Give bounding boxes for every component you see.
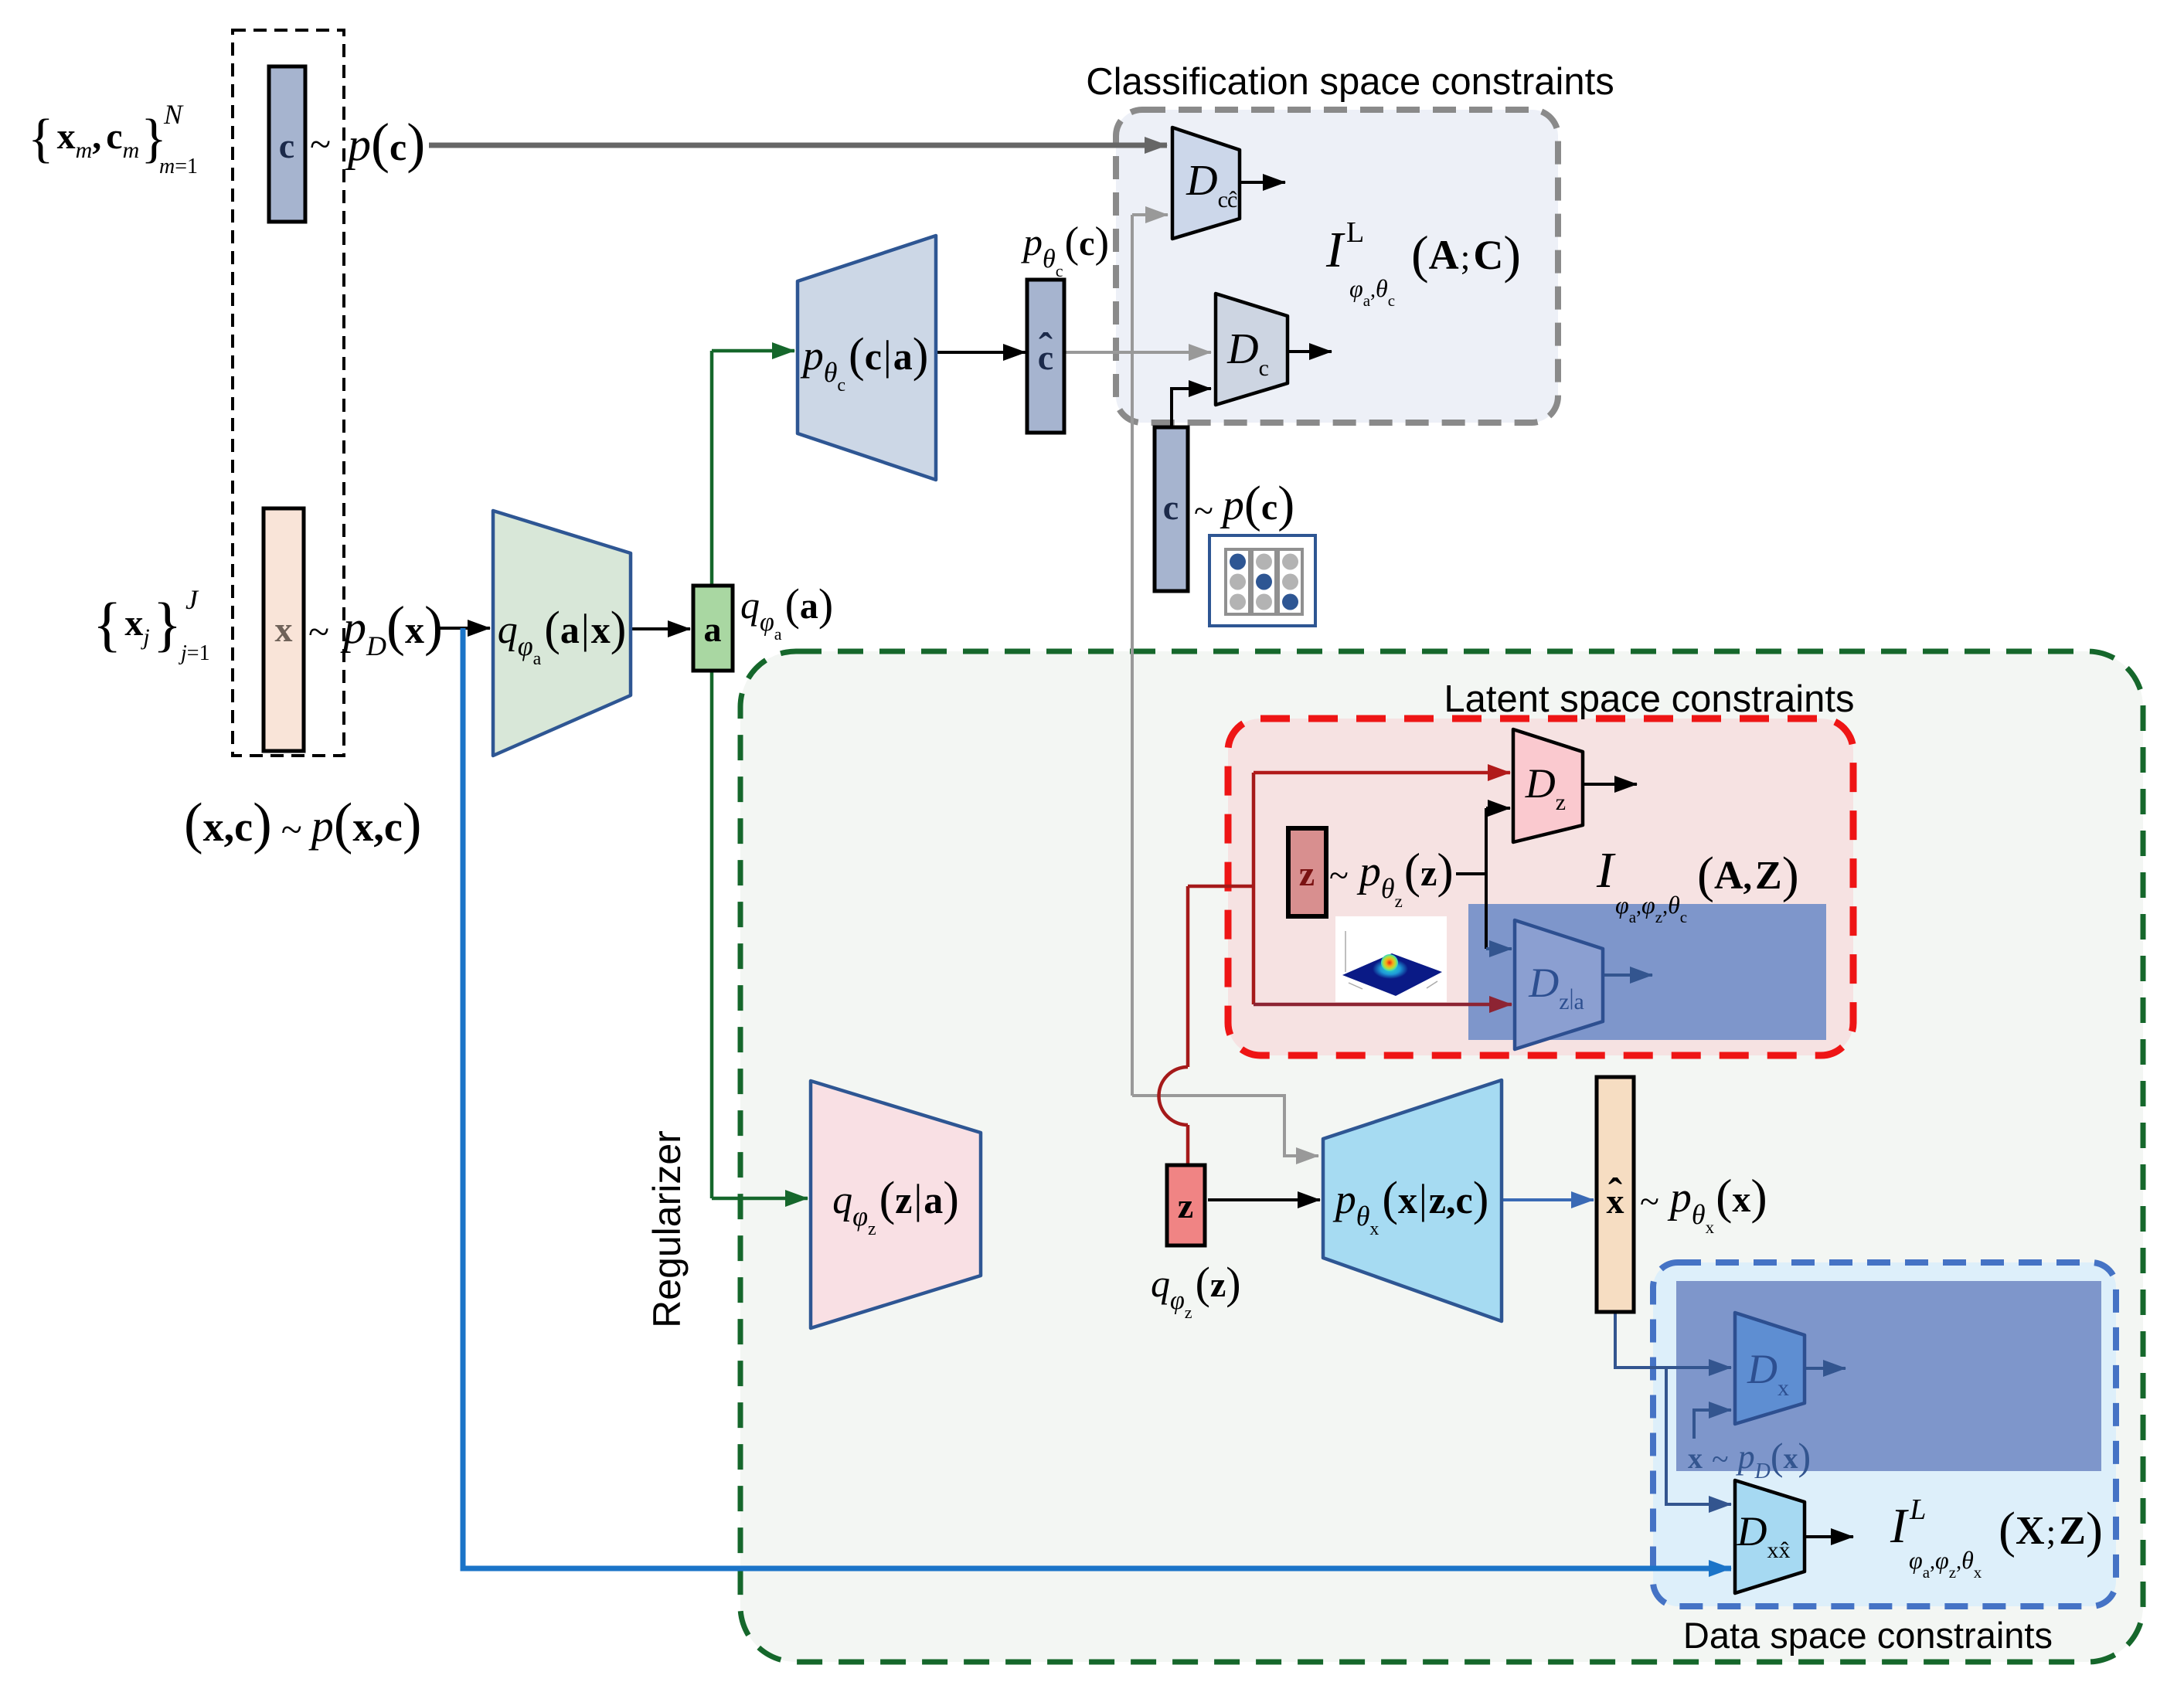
wire decoder to x_hat (blue)	[1502, 1198, 1594, 1201]
svg-text:c: c	[1163, 488, 1179, 527]
D_z output arrow	[1583, 783, 1637, 786]
svg-text:(: (	[1244, 476, 1261, 532]
svg-text:z: z	[1429, 1178, 1446, 1222]
svg-text:φ: φ	[1170, 1286, 1185, 1315]
svg-text:c: c	[106, 116, 122, 157]
left dashed box around c and x	[233, 30, 344, 756]
vector c2 sample	[1155, 427, 1188, 591]
wire c to D_cc (thick gray)	[429, 143, 1167, 148]
svg-text:x: x	[124, 603, 143, 644]
svg-text:(: (	[849, 329, 865, 382]
svg-text:~: ~	[1712, 1442, 1729, 1476]
svg-text:,: ,	[1370, 278, 1376, 302]
svg-text:c: c	[1056, 261, 1063, 280]
gray vertical bus from c_hat junction	[1131, 215, 1134, 1096]
svg-text:p: p	[1332, 1176, 1356, 1222]
svg-text:x: x	[1369, 1219, 1379, 1239]
svg-text:D: D	[1186, 157, 1217, 205]
svg-text:φ: φ	[1935, 1546, 1949, 1574]
svg-text:c: c	[1218, 187, 1228, 212]
svg-text:,: ,	[224, 804, 235, 850]
svg-text:~: ~	[1329, 855, 1349, 895]
decoder p_theta_x trapezoid	[1323, 1080, 1502, 1321]
svg-text:c: c	[384, 804, 403, 850]
svg-text:(: (	[1404, 843, 1420, 898]
dark red bus vertical in latent box	[1252, 773, 1256, 1004]
svg-text:(: (	[386, 595, 405, 657]
svg-text:(: (	[1697, 847, 1714, 903]
wire c2 to D_c second input	[1172, 389, 1211, 429]
svg-text:): )	[403, 792, 422, 855]
discriminator D_z trapezoid	[1513, 729, 1583, 842]
vector z	[1167, 1165, 1205, 1245]
svg-text:p: p	[1736, 1438, 1755, 1476]
svg-text:x: x	[352, 804, 373, 850]
svg-text:): )	[1750, 1169, 1767, 1224]
svg-text:m: m	[76, 138, 93, 163]
svg-text:,: ,	[92, 116, 101, 157]
svg-text:X: X	[2016, 1509, 2045, 1553]
D_cc output arrow	[1240, 181, 1285, 184]
svg-text:x: x	[1777, 1375, 1789, 1401]
green wire a vertical bus	[710, 351, 714, 1198]
svg-text:~: ~	[308, 610, 329, 653]
discriminator D_cc trapezoid	[1172, 127, 1240, 239]
svg-text:A: A	[1714, 854, 1743, 898]
svg-text:z: z	[868, 1219, 876, 1239]
svg-text:θ: θ	[1961, 1546, 1974, 1574]
svg-text:,: ,	[373, 804, 384, 850]
svg-text:,: ,	[1743, 857, 1753, 896]
wire z to decoder p_theta_x	[1208, 1198, 1320, 1201]
svg-text:D: D	[1747, 1346, 1777, 1392]
svg-text:x: x	[1784, 1442, 1798, 1475]
blue overlay rect in latent box	[1468, 904, 1826, 1040]
svg-text:(: (	[1771, 1435, 1784, 1478]
svg-text:x: x	[1688, 1442, 1703, 1475]
svg-text:): )	[1473, 1173, 1489, 1225]
svg-text:a: a	[893, 335, 913, 378]
svg-text:(: (	[1999, 1502, 2016, 1558]
svg-text:c: c	[234, 804, 253, 850]
svg-text:(: (	[1411, 225, 1429, 284]
vector z sample (latent box)	[1288, 828, 1326, 916]
svg-text:p: p	[1220, 481, 1244, 529]
svg-text:): )	[611, 603, 627, 655]
svg-text:I: I	[1325, 222, 1345, 278]
svg-text:x: x	[1732, 1179, 1750, 1220]
svg-text:z: z	[1299, 854, 1315, 893]
dark red wire to D_za second input	[1254, 1003, 1512, 1007]
vector c (left box)	[269, 66, 305, 222]
svg-text:p: p	[340, 602, 366, 653]
decoder p_theta_c trapezoid	[798, 236, 936, 480]
svg-text:a: a	[774, 624, 782, 644]
D_x output arrow	[1805, 1367, 1846, 1370]
black wire from p_theta_z label	[1456, 872, 1486, 875]
svg-text:=1: =1	[187, 641, 210, 665]
svg-text:L: L	[1346, 216, 1364, 249]
wire x to encoder q_phi_a	[438, 627, 490, 630]
svg-text:): )	[2086, 1502, 2103, 1558]
svg-text:): )	[1798, 1435, 1811, 1478]
svg-text:x: x	[275, 610, 293, 649]
svg-text:q: q	[498, 608, 518, 652]
svg-text:p: p	[800, 332, 824, 379]
svg-text:): )	[253, 792, 272, 855]
svg-text:x: x	[57, 116, 76, 157]
svg-text:,: ,	[1446, 1178, 1456, 1222]
svg-text:(: (	[785, 579, 800, 630]
green dashed regularizer region box	[740, 651, 2143, 1662]
svg-text:c: c	[1388, 291, 1395, 310]
navy wire to D_za first input	[1486, 947, 1512, 950]
svg-text:φ: φ	[1909, 1546, 1923, 1574]
svg-text:c: c	[1261, 487, 1277, 528]
svg-text:|: |	[914, 1176, 923, 1222]
dark red stub from bus to z wire	[1188, 885, 1254, 889]
svg-text:m: m	[123, 138, 140, 163]
svg-text:Regularizer: Regularizer	[645, 1130, 689, 1328]
svg-text:x: x	[591, 608, 611, 651]
discriminator D_xx trapezoid	[1735, 1480, 1805, 1593]
gaussian surface image	[1335, 916, 1447, 1002]
svg-text:p: p	[1356, 848, 1381, 895]
svg-text:): )	[1782, 847, 1799, 903]
svg-text:p: p	[308, 800, 334, 851]
svg-text:|: |	[1419, 1176, 1427, 1222]
discriminator D_za trapezoid	[1515, 920, 1603, 1049]
svg-text:(: (	[334, 792, 353, 855]
svg-text:x: x	[1974, 1563, 1982, 1582]
svg-text:|: |	[581, 606, 590, 652]
svg-text:φ: φ	[760, 608, 774, 637]
svg-text:q: q	[832, 1178, 852, 1222]
svg-text:θ: θ	[1356, 1201, 1370, 1232]
svg-text:z: z	[895, 1178, 912, 1222]
svg-text:φ: φ	[1615, 891, 1629, 919]
wire p_theta_c to c_hat	[936, 351, 1026, 354]
svg-text:Z: Z	[1755, 854, 1782, 898]
dark red hop over gray wire	[1159, 1067, 1189, 1125]
svg-text:Z: Z	[2059, 1509, 2086, 1553]
vector c_hat	[1027, 280, 1064, 433]
svg-text:(: (	[184, 792, 203, 855]
svg-text:p: p	[1667, 1174, 1692, 1222]
svg-text:ˆ: ˆ	[1608, 1170, 1622, 1216]
svg-text:z: z	[1556, 790, 1566, 815]
svg-text:q: q	[740, 583, 760, 627]
svg-text:z: z	[1559, 989, 1569, 1014]
svg-text:p: p	[1021, 220, 1043, 263]
vector x (left box)	[264, 508, 304, 751]
svg-text:~: ~	[1640, 1181, 1659, 1221]
blue overlay rect in data box	[1676, 1281, 2101, 1471]
svg-text:,: ,	[1662, 895, 1668, 919]
svg-text:x: x	[1767, 1538, 1779, 1563]
green wire a to q_phi_z	[712, 1197, 808, 1201]
svg-text:~: ~	[281, 807, 302, 851]
svg-text:x: x	[1706, 1218, 1715, 1237]
svg-text:,: ,	[1956, 1550, 1961, 1574]
dark red wire down to z (lower)	[1186, 1125, 1190, 1164]
svg-text:(: (	[544, 603, 560, 655]
svg-text:(: (	[879, 1173, 896, 1225]
dark red wire to D_z input	[1254, 771, 1510, 775]
svg-text:D: D	[1754, 1459, 1771, 1483]
svg-text:c: c	[1680, 908, 1687, 926]
svg-text:a: a	[1574, 989, 1584, 1014]
svg-text:p: p	[345, 119, 371, 170]
wire x pD to D_x second input	[1694, 1410, 1731, 1439]
svg-text:): )	[818, 579, 833, 630]
svg-text:,: ,	[1930, 1550, 1935, 1574]
svg-text:θ: θ	[1668, 891, 1680, 919]
svg-text:z: z	[1420, 853, 1437, 894]
svg-text:c: c	[837, 375, 845, 396]
D_c output arrow	[1288, 350, 1332, 353]
svg-text:Classification space constrain: Classification space constraints	[1086, 61, 1614, 103]
svg-text:Data space constraints: Data space constraints	[1683, 1615, 2053, 1656]
svg-text:~: ~	[310, 122, 331, 165]
svg-text:(: (	[1196, 1258, 1210, 1308]
wire encoder q_phi_a to a	[631, 627, 690, 630]
svg-text:): )	[1437, 843, 1453, 898]
svg-text:): )	[407, 112, 425, 174]
svg-text:;: ;	[1461, 237, 1471, 277]
black wire to D_z second input	[1486, 807, 1510, 810]
svg-text:a: a	[924, 1178, 943, 1222]
svg-text:θ: θ	[1381, 873, 1395, 904]
svg-text:ĉ: ĉ	[1227, 187, 1237, 212]
gray wire to D_cc second input	[1132, 213, 1168, 216]
svg-text:): )	[424, 595, 443, 657]
svg-text:{: {	[28, 109, 54, 168]
D_za output arrow	[1603, 974, 1652, 977]
svg-text:a: a	[704, 610, 722, 649]
svg-text:(: (	[1065, 219, 1080, 267]
classification space constraints dashed box	[1116, 110, 1558, 423]
svg-text:~: ~	[1194, 491, 1213, 530]
data space constraints blue dashed box	[1653, 1262, 2116, 1606]
svg-text:θ: θ	[1376, 274, 1388, 302]
svg-text:,: ,	[1636, 895, 1641, 919]
svg-text:φ: φ	[1641, 891, 1655, 919]
black bus for D_z / D_za	[1485, 808, 1488, 949]
svg-text:z: z	[1395, 892, 1403, 911]
D_xx output arrow	[1805, 1535, 1853, 1538]
discriminator D_c trapezoid	[1216, 294, 1288, 405]
svg-text:x: x	[203, 804, 224, 850]
svg-text:z: z	[1949, 1563, 1956, 1582]
svg-text:φ: φ	[852, 1201, 868, 1232]
svg-text:I: I	[1596, 842, 1616, 899]
gray wire c_hat to D_c	[1064, 351, 1211, 354]
green wire a to p_theta_c	[712, 349, 794, 353]
svg-text:a: a	[533, 649, 542, 669]
svg-text:D: D	[1737, 1508, 1767, 1555]
svg-text:c: c	[390, 125, 407, 168]
svg-text:}: }	[153, 590, 182, 658]
wire x_hat down to D_x	[1615, 1313, 1731, 1368]
svg-text:D: D	[1525, 760, 1556, 807]
svg-text:A: A	[1429, 232, 1459, 278]
blue wire x to D_xx (long)	[463, 628, 1731, 1568]
wire branch to D_xx first input	[1666, 1368, 1731, 1504]
gray wire to decoder p_theta_x	[1132, 1096, 1318, 1156]
svg-text:C: C	[1473, 232, 1503, 278]
svg-text:ˆ: ˆ	[1039, 325, 1053, 371]
vector a	[693, 586, 733, 671]
svg-text:z: z	[1210, 1265, 1226, 1304]
svg-text:x: x	[1398, 1178, 1417, 1222]
svg-text:D: D	[1226, 325, 1258, 373]
svg-text:x̂: x̂	[1779, 1538, 1791, 1563]
one-hot class image (dot matrix)	[1209, 535, 1315, 626]
svg-text:m: m	[159, 155, 175, 178]
svg-text:q: q	[1151, 1262, 1170, 1305]
svg-text:): )	[1503, 225, 1521, 284]
svg-text:;: ;	[2046, 1512, 2056, 1551]
svg-text:Latent space constraints: Latent space constraints	[1444, 678, 1854, 720]
svg-text:N: N	[163, 99, 184, 130]
svg-text:z: z	[1185, 1303, 1192, 1322]
latent space constraints red dashed box	[1228, 719, 1853, 1055]
discriminator D_x trapezoid	[1735, 1313, 1805, 1424]
svg-text:θ: θ	[1692, 1199, 1706, 1230]
svg-text:c: c	[1259, 355, 1269, 381]
svg-text:c: c	[1456, 1178, 1473, 1222]
svg-text:): )	[1277, 476, 1294, 532]
encoder q_phi_z trapezoid	[811, 1081, 981, 1328]
svg-text:a: a	[560, 608, 580, 651]
dark red wire down to z (upper)	[1186, 886, 1190, 1067]
svg-text:I: I	[1890, 1498, 1909, 1553]
svg-text:(: (	[1382, 1173, 1398, 1225]
svg-text:|: |	[883, 332, 892, 379]
svg-text:D: D	[366, 630, 386, 661]
svg-text:(: (	[1716, 1169, 1732, 1224]
vector x_hat	[1597, 1077, 1634, 1312]
svg-text:D: D	[1528, 960, 1559, 1006]
svg-text:x: x	[405, 608, 424, 651]
encoder q_phi_a trapezoid	[493, 511, 631, 756]
svg-text:): )	[943, 1173, 959, 1225]
svg-text:c: c	[279, 126, 294, 165]
svg-text:θ: θ	[824, 357, 838, 388]
svg-text:z: z	[1655, 908, 1662, 926]
svg-text:φ: φ	[518, 630, 533, 661]
svg-text:=1: =1	[175, 155, 198, 178]
svg-text:z: z	[1178, 1186, 1193, 1225]
svg-text:a: a	[800, 586, 818, 627]
svg-text:): )	[913, 329, 929, 382]
svg-text:L: L	[1909, 1493, 1926, 1526]
svg-text:c: c	[865, 335, 882, 378]
svg-text:J: J	[185, 584, 199, 615]
svg-text:): )	[1095, 219, 1110, 267]
svg-text:φ: φ	[1349, 274, 1363, 302]
svg-text:): )	[1226, 1258, 1240, 1308]
svg-text:c: c	[1079, 223, 1094, 263]
svg-text:(: (	[371, 112, 390, 174]
svg-text:θ: θ	[1043, 245, 1056, 274]
svg-text:{: {	[93, 590, 121, 658]
